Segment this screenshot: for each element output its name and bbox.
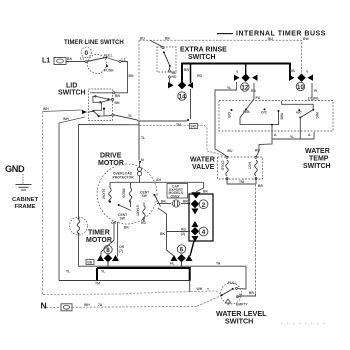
svg-text:BU: BU bbox=[228, 149, 233, 153]
svg-text:BK: BK bbox=[67, 57, 73, 61]
svg-text:SW: SW bbox=[142, 194, 148, 198]
svg-text:BK: BK bbox=[203, 190, 208, 194]
svg-text:YL: YL bbox=[128, 114, 132, 118]
svg-text:RD: RD bbox=[197, 74, 202, 78]
svg-text:SW: SW bbox=[120, 217, 126, 221]
svg-text:LID: LID bbox=[66, 83, 77, 90]
svg-text:CABINET: CABINET bbox=[12, 197, 39, 203]
svg-text:TIMER LINE SWITCH: TIMER LINE SWITCH bbox=[64, 40, 124, 46]
svg-text:START: START bbox=[136, 205, 140, 217]
svg-text:HL: HL bbox=[170, 262, 175, 266]
svg-text:L1: L1 bbox=[42, 58, 50, 65]
svg-text:PROTECTOR: PROTECTOR bbox=[113, 176, 135, 180]
svg-text:SWITCH: SWITCH bbox=[58, 90, 86, 97]
svg-text:WATER: WATER bbox=[305, 148, 330, 155]
svg-text:MOTOR: MOTOR bbox=[98, 160, 124, 167]
svg-text:SLOW: SLOW bbox=[102, 189, 106, 200]
svg-text:(7): (7) bbox=[119, 249, 123, 253]
svg-text:RD: RD bbox=[172, 75, 177, 79]
svg-text:(2): (2) bbox=[181, 232, 185, 236]
svg-text:BU: BU bbox=[140, 37, 145, 41]
svg-text:GND: GND bbox=[5, 164, 25, 174]
svg-text:TIMER: TIMER bbox=[88, 230, 110, 237]
svg-text:H/C: H/C bbox=[296, 111, 302, 115]
svg-text:BN: BN bbox=[115, 101, 120, 105]
svg-text:BR: BR bbox=[184, 68, 189, 72]
svg-text:4: 4 bbox=[202, 229, 206, 236]
svg-text:BN: BN bbox=[129, 74, 134, 78]
svg-text:FRAME: FRAME bbox=[15, 204, 36, 210]
svg-text:W/B: W/B bbox=[243, 110, 250, 114]
svg-text:WH: WH bbox=[43, 107, 49, 111]
svg-text:10: 10 bbox=[297, 84, 304, 91]
svg-text:REDS: REDS bbox=[122, 189, 126, 199]
svg-text:VB: VB bbox=[290, 69, 295, 73]
svg-text:WH: WH bbox=[197, 287, 203, 291]
svg-text:2: 2 bbox=[202, 202, 206, 209]
svg-text:(7) (PI): (7) (PI) bbox=[308, 97, 319, 101]
svg-text:PI: PI bbox=[314, 89, 317, 93]
svg-text:TEMP: TEMP bbox=[309, 156, 329, 163]
svg-text:PU: PU bbox=[256, 96, 261, 100]
svg-text:FULL: FULL bbox=[228, 281, 237, 285]
svg-text:BR: BR bbox=[258, 184, 263, 188]
svg-text:C/B: C/B bbox=[227, 112, 231, 118]
svg-text:TA: TA bbox=[216, 262, 221, 266]
svg-text:TM: TM bbox=[95, 282, 100, 286]
svg-text:0: 0 bbox=[85, 50, 89, 57]
svg-text:BR: BR bbox=[249, 291, 254, 295]
svg-text:BK: BK bbox=[124, 226, 129, 230]
svg-text:SWITCH: SWITCH bbox=[225, 316, 253, 325]
svg-text:BK: BK bbox=[165, 37, 170, 41]
svg-text:ONLY: ONLY bbox=[171, 194, 181, 198]
svg-text:HOT: HOT bbox=[248, 162, 252, 170]
svg-text:DRIVE: DRIVE bbox=[100, 153, 122, 160]
svg-text:BK: BK bbox=[160, 232, 165, 236]
svg-text:L1: L1 bbox=[80, 57, 84, 61]
svg-text:COLD: COLD bbox=[221, 161, 225, 171]
svg-text:SWITCH: SWITCH bbox=[188, 54, 216, 61]
svg-text:TM: TM bbox=[239, 180, 244, 184]
svg-text:14: 14 bbox=[179, 94, 186, 101]
svg-text:EMPTY: EMPTY bbox=[236, 303, 248, 307]
svg-text:SWITCH: SWITCH bbox=[303, 163, 331, 170]
svg-text:N: N bbox=[41, 300, 47, 310]
svg-text:EXTRA RINSE: EXTRA RINSE bbox=[180, 46, 227, 53]
svg-text:WH: WH bbox=[63, 117, 69, 121]
svg-text:BK: BK bbox=[161, 200, 166, 204]
svg-text:YL: YL bbox=[227, 86, 231, 90]
svg-text:L2: L2 bbox=[122, 58, 126, 62]
svg-text:GB: GB bbox=[87, 261, 93, 265]
svg-text:FULL: FULL bbox=[104, 54, 113, 58]
svg-text:YL: YL bbox=[290, 135, 294, 139]
svg-text:WH: WH bbox=[84, 303, 90, 307]
svg-text:6: 6 bbox=[180, 247, 184, 254]
svg-text:MOTOR: MOTOR bbox=[86, 237, 112, 244]
svg-text:BW: BW bbox=[303, 37, 309, 41]
svg-text:O/C: O/C bbox=[261, 111, 268, 115]
svg-text:BU: BU bbox=[268, 37, 273, 41]
svg-text:RD: RD bbox=[255, 149, 260, 153]
svg-text:VALVE: VALVE bbox=[192, 164, 215, 171]
svg-text:WATER: WATER bbox=[190, 157, 215, 164]
svg-text:W/B: W/B bbox=[280, 113, 284, 120]
svg-text:PUSH: PUSH bbox=[104, 69, 114, 73]
svg-text:7A: 7A bbox=[98, 303, 103, 307]
svg-text:M: M bbox=[141, 158, 144, 162]
svg-text:W/C: W/C bbox=[315, 112, 319, 119]
svg-text:8: 8 bbox=[106, 247, 110, 254]
svg-text:AH: AH bbox=[156, 178, 161, 182]
svg-text:INTERNAL TIMER BUSS: INTERNAL TIMER BUSS bbox=[236, 31, 326, 38]
svg-text:YL: YL bbox=[66, 270, 70, 274]
svg-text:BR: BR bbox=[183, 200, 188, 204]
svg-text:TL: TL bbox=[141, 136, 145, 140]
svg-text:BN: BN bbox=[115, 94, 120, 98]
svg-text:RD: RD bbox=[141, 221, 146, 225]
svg-text:YL: YL bbox=[101, 270, 105, 274]
svg-text:12: 12 bbox=[241, 85, 248, 92]
